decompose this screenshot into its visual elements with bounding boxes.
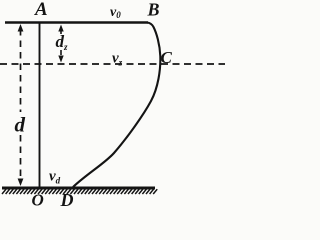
svg-text:A: A xyxy=(34,0,48,20)
svg-text:B: B xyxy=(147,0,160,20)
svg-text:C: C xyxy=(161,48,173,67)
svg-text:O: O xyxy=(32,191,44,209)
svg-text:d: d xyxy=(15,113,26,137)
svg-text:D: D xyxy=(60,190,74,208)
